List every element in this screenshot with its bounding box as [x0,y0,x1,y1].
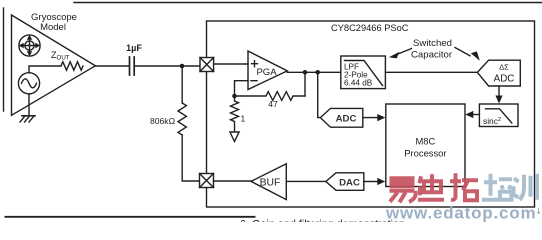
svg-text:6. Gain and filtering demonstr: 6. Gain and filtering demonstration [240,219,405,223]
buffer BUF [251,164,286,200]
svg-text:DAC: DAC [339,177,360,188]
resistor R3 1 (to analog ground) [231,96,239,132]
char xun (blue) [514,174,538,200]
resistor R2 47 (feedback) [235,92,306,101]
char yi (red) [390,178,416,202]
svg-text:CY8C29466 PSoC: CY8C29466 PSoC [331,23,409,33]
svg-text:M8C: M8C [416,136,436,147]
label 47 [268,99,278,109]
page rule line top [74,2,542,4]
wire feedback to node C [304,72,306,96]
svg-text:↓: ↓ [536,204,541,216]
wire source to ground [28,94,30,116]
watermark yiditop chinese characters [385,173,541,222]
page rule line left [3,8,5,111]
svg-text:ΔΣ: ΔΣ [499,63,509,72]
wire M1 to PGA input [214,63,248,65]
svg-text:ADC: ADC [336,114,357,125]
mixer M1 (top crossed box) [200,58,214,72]
caption rule line [6,216,255,218]
wire source to Zout resistor [29,66,61,73]
svg-text:Switched: Switched [413,38,452,49]
svg-text:806kΩ: 806kΩ [150,116,176,126]
resistor R1 806k [178,103,186,135]
label Gryoscope Model [31,12,77,33]
arrow ADC to M8C [363,114,386,121]
wire capacitor to node A and to mixer M1 [134,65,200,67]
label Switched Capacitor [411,38,453,61]
wire LPF to delta-sigma ADC [385,71,477,73]
annotation arrow to LPF [389,49,412,59]
PSoC boundary box [207,21,535,207]
wire BUF to DAC tag [286,180,326,182]
op-amp PGA [248,51,287,90]
node A junction [180,64,185,69]
char pei (blue) [482,174,512,200]
LPF block [341,56,386,89]
char tuo (red) [450,173,478,200]
arrow sinc to M8C [465,111,479,118]
sinc decimator block [479,104,518,127]
label CY8C29466 PSoC [331,23,409,33]
gyroscope model triangle [12,15,96,115]
delta-sigma ADC block [477,60,520,86]
svg-text:6.44 dB: 6.44 dB [344,79,373,88]
label 1 [241,114,246,124]
label 806k [150,116,176,126]
ground [20,116,35,122]
gyroscope symbol [19,35,41,57]
node C junction [303,70,308,75]
svg-text:47: 47 [268,99,278,109]
arrow delta-sigma ADC to sinc [495,86,502,104]
char di (red) [418,174,444,200]
label 1uF [126,43,142,53]
svg-text:1µF: 1µF [126,43,142,53]
wire node D to ADC tag [318,72,321,117]
wire triangle tip to capacitor [95,65,129,67]
wire 806k to mixer M2 [182,135,199,181]
wire M2 to BUF [214,180,252,182]
svg-text:1: 1 [241,114,246,124]
svg-text:ADC: ADC [494,74,515,85]
node D junction [315,70,320,75]
svg-text:PGA: PGA [256,67,277,78]
annotation arrow to delta-sigma ADC [455,48,480,61]
capacitor C1 [130,57,135,75]
M8C processor box [386,104,465,187]
DAC tag [326,173,364,191]
wire node A down to resistor 806k [181,66,183,103]
wire PGA inverting input to node B [235,81,249,96]
svg-text:Capacitor: Capacitor [411,50,453,61]
analog ground arrow [230,132,239,142]
svg-text:www.edatop.com: www.edatop.com [385,203,536,222]
svg-text:BUF: BUF [260,178,281,189]
resistor Zout [61,62,83,70]
svg-text:Processor: Processor [404,148,446,159]
mixer M2 (bottom crossed box) [200,174,214,188]
wire PGA output rail [287,71,341,73]
label Zout [51,50,70,62]
ADC tag [320,108,363,127]
caption text (clipped at bottom) [240,219,405,231]
svg-text:Model: Model [40,22,66,33]
node B junction [232,94,237,99]
AC source V1 [18,73,39,94]
arrow DAC to M8C [364,178,386,185]
